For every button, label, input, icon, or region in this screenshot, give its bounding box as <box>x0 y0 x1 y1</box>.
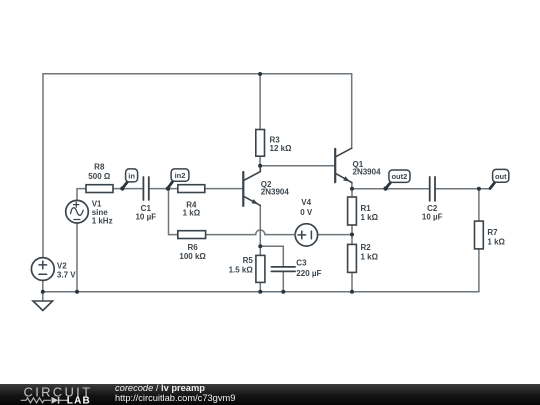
junction R1 R2 V4 <box>350 233 354 237</box>
label R5 value <box>229 256 254 274</box>
footer bar <box>0 384 540 405</box>
label Q2 <box>261 180 290 197</box>
resistor R4 <box>178 185 205 193</box>
wire Q1 collector vertical <box>351 74 353 148</box>
wire V1 bottom <box>76 223 78 292</box>
wire bottom rail <box>43 291 479 293</box>
wire R1 leads <box>351 189 353 197</box>
transistor Q1 <box>335 148 352 182</box>
svg-text:1 kΩ: 1 kΩ <box>361 252 379 261</box>
wire V1 top <box>77 189 86 201</box>
resistor R1 <box>348 197 357 225</box>
wire top rail <box>43 73 352 75</box>
junction V1 bottom <box>75 290 79 294</box>
label C2 value <box>422 204 443 221</box>
wire ground stem <box>42 292 44 301</box>
svg-text:220 µF: 220 µF <box>296 269 321 278</box>
source V1 sine <box>66 200 89 223</box>
svg-text:1.5 kΩ: 1.5 kΩ <box>229 265 254 274</box>
junction Q2 emitter R5 C3 <box>258 244 262 248</box>
footer credit text <box>115 384 235 403</box>
transistor Q2 <box>243 166 260 206</box>
label C3 value <box>296 258 321 278</box>
label R3 value <box>270 135 293 153</box>
wire left rail <box>42 74 44 258</box>
resistor R6 <box>178 231 206 239</box>
wire R3 top lead <box>259 74 261 130</box>
label V2 <box>57 261 76 279</box>
wire Q1 base row <box>260 165 334 167</box>
wire V4 right <box>318 234 352 236</box>
logo diode <box>52 397 59 404</box>
junction top R3 <box>258 72 262 76</box>
ground <box>33 301 53 311</box>
svg-text:10 µF: 10 µF <box>422 213 443 222</box>
wire C1 to node in2 <box>149 188 177 190</box>
label R7 value <box>487 228 505 246</box>
wire R7 leads <box>478 189 480 221</box>
resistor R8 <box>86 185 113 193</box>
svg-text:R2: R2 <box>361 243 372 252</box>
node flag in2 <box>166 169 189 191</box>
wire R3 bottom lead <box>259 156 261 166</box>
wire Q1 emitter vertical <box>351 183 353 189</box>
wire C2 to node out <box>436 188 491 190</box>
svg-text:10 µF: 10 µF <box>135 213 156 222</box>
wire R2 leads <box>351 235 353 245</box>
svg-text:out: out <box>495 172 507 181</box>
label R6 value <box>179 243 206 261</box>
label V1 <box>92 200 113 226</box>
wire R4 to Q2 base <box>205 188 243 190</box>
svg-text:R7: R7 <box>487 228 498 237</box>
junction R2 bottom <box>350 290 354 294</box>
resistor R3 <box>256 130 265 157</box>
source V2 battery <box>31 258 54 281</box>
svg-text:1 kΩ: 1 kΩ <box>183 209 201 218</box>
node flag in <box>120 169 137 191</box>
capacitor C2 <box>430 177 435 201</box>
svg-text:100 kΩ: 100 kΩ <box>179 252 206 261</box>
resistor R7 <box>475 221 484 249</box>
svg-text:LAB: LAB <box>67 396 91 405</box>
svg-text:R1: R1 <box>361 204 372 213</box>
resistor R2 <box>348 244 357 272</box>
svg-text:R5: R5 <box>243 256 254 265</box>
label R2 value <box>361 243 379 261</box>
capacitor C3 <box>271 267 295 272</box>
wire node to C3 top <box>260 246 283 266</box>
svg-text:R6: R6 <box>187 243 198 252</box>
wire in2 vertical <box>169 189 178 235</box>
wire V2 bottom <box>42 280 44 291</box>
svg-text:in2: in2 <box>175 171 186 180</box>
label V4 <box>300 198 313 217</box>
svg-text:12 kΩ: 12 kΩ <box>270 144 293 153</box>
wire R8 to C1 <box>113 188 143 190</box>
svg-text:R8: R8 <box>94 163 105 172</box>
svg-text:500 Ω: 500 Ω <box>88 172 111 181</box>
svg-text:0 V: 0 V <box>300 208 313 217</box>
wire out2 row <box>352 188 429 190</box>
wire Q2 emitter vertical <box>259 206 261 247</box>
svg-text:out2: out2 <box>391 172 407 181</box>
junction Q2 collector node <box>258 164 262 168</box>
junction V2 bottom <box>41 290 45 294</box>
junction out node <box>477 187 481 191</box>
wire R6 to V4 with hop <box>206 230 296 235</box>
junction Q1 emitter node <box>350 187 354 191</box>
svg-text:1 kHz: 1 kHz <box>92 216 113 225</box>
node flag out <box>490 169 509 188</box>
resistor R5 <box>256 255 265 282</box>
label Q1 <box>353 160 382 177</box>
label R8 value <box>88 163 111 181</box>
junction R5 bottom <box>258 290 262 294</box>
source V4 <box>295 224 317 246</box>
svg-text:1 kΩ: 1 kΩ <box>361 213 379 222</box>
svg-text:2N3904: 2N3904 <box>353 167 382 176</box>
wire C3 bottom <box>282 272 284 292</box>
wire V4 left <box>294 234 296 236</box>
label R4 value <box>183 200 201 217</box>
wire R5 leads <box>259 246 261 255</box>
svg-text:3.7 V: 3.7 V <box>57 270 76 279</box>
svg-text:V4: V4 <box>301 198 311 207</box>
node flag out2 <box>383 170 410 191</box>
svg-text:1 kΩ: 1 kΩ <box>487 237 505 246</box>
svg-text:C3: C3 <box>296 258 307 267</box>
junction C3 bottom <box>281 290 285 294</box>
capacitor C1 <box>143 177 148 200</box>
label R1 value <box>361 204 379 222</box>
svg-text:R3: R3 <box>270 135 281 144</box>
svg-text:2N3904: 2N3904 <box>261 188 290 197</box>
svg-text:V2: V2 <box>57 261 67 270</box>
svg-text:in: in <box>128 171 135 180</box>
label C1 value <box>135 204 156 221</box>
logo resistor zigzag <box>21 398 51 403</box>
